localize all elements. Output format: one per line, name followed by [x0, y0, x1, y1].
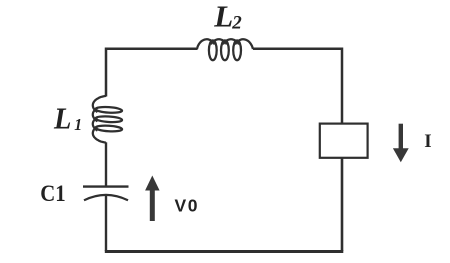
svg-text:L: L: [53, 101, 71, 135]
svg-text:C1: C1: [40, 180, 65, 206]
svg-text:V0: V0: [175, 196, 200, 216]
svg-text:2: 2: [231, 13, 242, 34]
svg-text:L: L: [213, 0, 233, 34]
svg-text:I: I: [424, 131, 431, 152]
svg-text:1: 1: [74, 114, 82, 134]
